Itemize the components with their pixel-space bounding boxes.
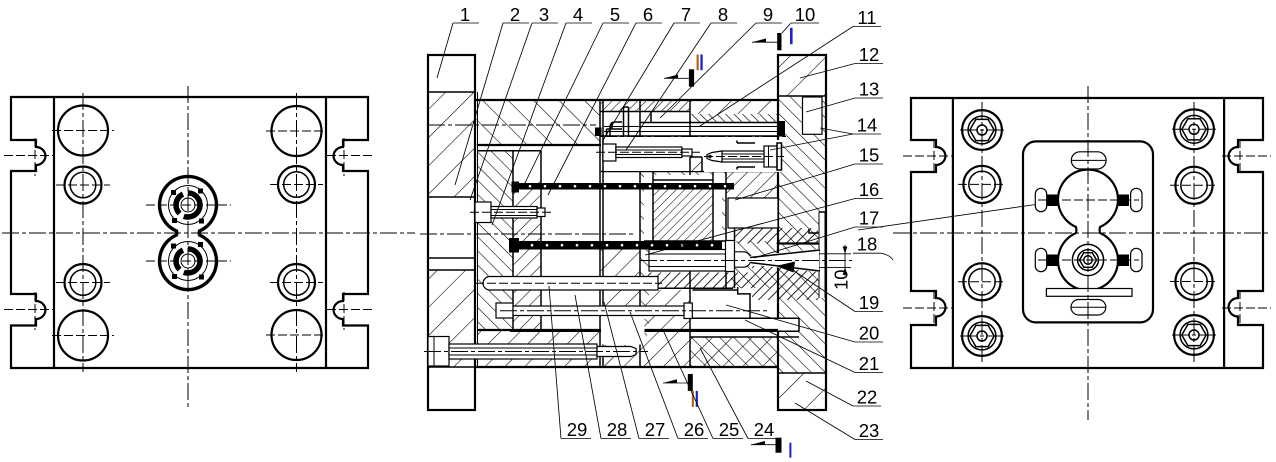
top plate edge	[475, 99, 778, 101]
guide bush hole bottom-left	[58, 311, 108, 361]
guide hole bottom-right	[1175, 263, 1212, 300]
right column outline	[778, 55, 826, 410]
screw hole bottom-left	[65, 264, 102, 301]
stepped ejector space below core	[645, 287, 734, 289]
svg-text:23: 23	[859, 420, 880, 441]
inner plate edges	[952, 98, 954, 368]
side core pins upper	[1047, 195, 1059, 207]
core retaining head	[726, 241, 735, 272]
svg-text:7: 7	[681, 4, 691, 25]
sprue cone	[750, 249, 819, 272]
cavity insert pocket	[728, 198, 778, 228]
cavity plate hatch right of pocket	[731, 241, 778, 288]
svg-text:27: 27	[645, 419, 666, 440]
top band (ejector housing top) hatch	[475, 100, 600, 145]
bottom long bolt	[428, 337, 449, 367]
boss centerlines	[146, 204, 231, 206]
svg-text:13: 13	[859, 79, 880, 100]
lower mid plates hatch	[601, 241, 640, 330]
hex socket screw top-left	[962, 110, 1002, 150]
core insert pocket white	[644, 175, 722, 241]
locating ring pocket top right	[803, 97, 823, 134]
svg-text:12: 12	[859, 44, 880, 65]
svg-text:14: 14	[857, 115, 878, 136]
notch centerlines	[903, 155, 953, 157]
core surround hatch below axis	[640, 250, 649, 336]
hex socket screw bottom-left	[962, 316, 1002, 356]
dimension 10 at sprue	[819, 253, 851, 255]
hex socket screw top-right	[1174, 109, 1214, 149]
right plate outline with clamping notches	[911, 98, 1263, 368]
right column (fixed clamp plate) hatch	[778, 96, 826, 373]
svg-text:11: 11	[857, 7, 876, 28]
side core pins lower	[1047, 255, 1059, 267]
hole column centerline right	[296, 93, 298, 372]
lower boss retaining screws	[171, 244, 176, 249]
core plate hatch upper	[640, 172, 726, 242]
part boundary horizontals	[601, 171, 778, 173]
screw hole top-left	[65, 167, 102, 204]
ejector retainer bar	[483, 277, 658, 291]
svg-text:28: 28	[607, 419, 628, 440]
lower puller rod (dotted)	[509, 238, 519, 253]
guide bush hole bottom-right	[272, 310, 322, 360]
guide hole top-right	[1175, 167, 1212, 204]
sprue bushing center	[1072, 244, 1103, 275]
hole column centerline left	[82, 93, 84, 372]
svg-text:1: 1	[460, 4, 470, 25]
cavity plate hatch upper right	[726, 172, 778, 199]
lower core boss (outline merged above)	[169, 242, 208, 281]
plate boundary verticals	[599, 100, 601, 367]
svg-text:21: 21	[859, 353, 880, 374]
top center guide screw	[604, 137, 700, 171]
middle view centerlines	[420, 233, 636, 235]
bottom band hatch left	[477, 330, 601, 367]
gate arrow dark	[776, 262, 795, 273]
section mark II bottom	[688, 374, 693, 391]
dense sprue-bush hatch wedges	[735, 228, 819, 244]
cross-view leader to side pin	[858, 205, 1036, 231]
right column bottom block sparse hatch	[778, 373, 826, 410]
svg-text:19: 19	[859, 292, 880, 313]
guide hole bottom-left	[963, 263, 1000, 300]
sprue puller elbow	[607, 107, 629, 137]
long puller rod channel end cap	[779, 121, 785, 137]
hex socket screw bottom-right	[1174, 315, 1214, 355]
screw hole top-right	[278, 166, 315, 203]
lower core support hatch	[645, 290, 691, 367]
top slot	[1071, 152, 1106, 169]
sprue bushing channel in right column	[819, 212, 825, 298]
hole row dashes	[52, 130, 114, 132]
svg-text:15: 15	[859, 145, 880, 166]
socket bolt upper (ejector plate bolt)	[475, 202, 491, 223]
centerlines right view	[1087, 86, 1089, 420]
svg-text:3: 3	[539, 4, 549, 25]
right small screw pointing left	[704, 140, 781, 172]
stripper strip dense hatch	[690, 100, 778, 114]
upper puller rod (dotted)	[512, 182, 520, 193]
notch centerlines	[4, 155, 53, 157]
svg-text:9: 9	[763, 4, 773, 25]
inner plate edge right	[325, 97, 327, 368]
section mark I top	[790, 28, 793, 44]
ejector channel into right column	[692, 319, 799, 331]
svg-text:26: 26	[684, 419, 705, 440]
runner bar under cavity	[1046, 289, 1132, 297]
section mark I bottom	[776, 438, 782, 453]
svg-text:22: 22	[857, 387, 878, 408]
svg-text:4: 4	[573, 4, 583, 25]
guide bush hole top-left	[58, 106, 108, 156]
svg-text:24: 24	[754, 419, 775, 440]
horizontal centerline	[2, 232, 415, 234]
svg-text:18: 18	[857, 234, 878, 255]
svg-text:16: 16	[859, 179, 880, 200]
svg-text:5: 5	[610, 4, 620, 25]
left column outline	[428, 55, 475, 410]
svg-text:17: 17	[859, 208, 880, 229]
support plate top hatch	[601, 100, 690, 112]
bottom slot	[1071, 300, 1106, 316]
upper boss retaining screws	[171, 190, 176, 195]
main core cylinder	[649, 250, 726, 272]
svg-text:2: 2	[510, 4, 520, 25]
guide bush hole top-right	[272, 106, 322, 156]
screw hole bottom-right	[278, 264, 315, 301]
right column top block sparse hatch	[778, 55, 826, 96]
figure-8 cavity outline	[1058, 170, 1118, 291]
left plate outline with clamping notches	[11, 97, 368, 368]
svg-text:25: 25	[719, 419, 740, 440]
svg-text:10: 10	[795, 4, 816, 25]
guide hole top-left	[963, 166, 1000, 203]
moving clamp plate (left column) hatch	[428, 92, 475, 197]
svg-text:8: 8	[718, 4, 728, 25]
ejector plate pair hatch	[477, 151, 513, 330]
upper core boss	[160, 176, 217, 289]
cavity plate rounded square	[1023, 141, 1153, 322]
svg-text:10: 10	[831, 269, 852, 290]
bottom band hatch right	[690, 337, 778, 367]
inner plate edge left	[53, 97, 55, 368]
svg-text:29: 29	[567, 419, 588, 440]
ejector tie rod	[601, 316, 645, 345]
svg-text:6: 6	[643, 4, 653, 25]
vertical centerline	[187, 86, 189, 407]
boss centerlines	[1038, 199, 1139, 201]
dense hatch band under core	[645, 273, 752, 289]
section mark II top	[697, 55, 699, 71]
svg-text:20: 20	[859, 323, 880, 344]
